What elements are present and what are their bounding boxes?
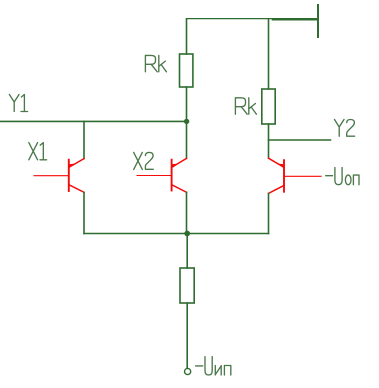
wire right Rk bottom	[268, 124, 270, 158]
wire Y2	[269, 139, 331, 141]
wire Q3 emitter drop	[268, 193, 270, 233]
wire left Rk top	[186, 19, 188, 54]
resistor Re (bottom)	[180, 268, 194, 303]
transistor X1	[34, 159, 84, 193]
label X1	[29, 143, 47, 160]
label Y1	[9, 95, 27, 112]
wire resistor to supply terminal	[186, 303, 188, 368]
label -Uip	[196, 357, 231, 375]
label Y2	[335, 120, 355, 137]
node junction dot (Y1 / Rk)	[184, 119, 189, 124]
label Rk (right)	[235, 98, 256, 114]
wire X2 emitter drop	[186, 192, 188, 233]
label -Uop	[326, 168, 359, 185]
wire emitter rail to resistor	[186, 234, 188, 269]
node junction dot (emitter rail)	[184, 231, 190, 237]
terminal circle -Uip	[185, 368, 191, 374]
wire Y1	[0, 120, 187, 122]
resistor Rk (left)	[180, 54, 193, 87]
wire top rail	[187, 18, 319, 20]
wire top rail right segment	[273, 19, 318, 21]
transistor X2	[137, 158, 187, 192]
wire bottom rail	[84, 233, 269, 235]
ground terminal bar	[317, 5, 319, 37]
wire left Rk bottom	[186, 87, 188, 121]
label X2	[134, 152, 154, 169]
transistor Q3 (reference, mirrored)	[269, 158, 322, 193]
resistor Rk (right)	[262, 89, 275, 124]
wire X1 emitter drop	[83, 192, 85, 233]
wire X1 collector drop	[83, 121, 85, 158]
label Rk (left)	[145, 55, 166, 71]
wire X2 collector drop	[186, 121, 188, 158]
wire right Rk top	[268, 19, 270, 89]
